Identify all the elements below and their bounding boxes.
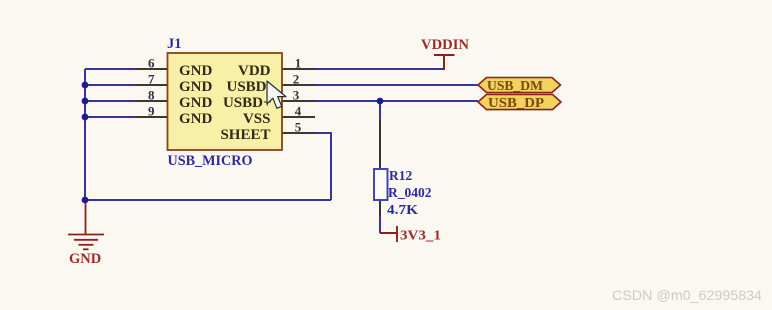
svg-text:VDDIN: VDDIN <box>421 37 469 53</box>
svg-text:6: 6 <box>148 56 155 71</box>
svg-text:3V3_1: 3V3_1 <box>400 229 441 244</box>
svg-text:9: 9 <box>148 104 155 119</box>
power port VDDIN <box>434 54 455 56</box>
resistor R12 bottom pin <box>379 200 381 216</box>
wire: pin1 to VDDIN horizontal <box>315 68 444 70</box>
svg-text:VSS: VSS <box>243 111 271 127</box>
svg-text:USBD-: USBD- <box>226 79 271 95</box>
wire: pin7 row horizontal <box>85 84 135 86</box>
svg-text:R_0402: R_0402 <box>388 185 432 200</box>
svg-text:GND: GND <box>179 95 213 111</box>
mouse cursor <box>267 81 286 108</box>
wire: pin5 horizontal <box>315 132 332 134</box>
pin 1 stub <box>282 68 315 70</box>
power port 3V3_1 <box>380 226 397 242</box>
ground symbol <box>68 203 104 249</box>
wire: VDDIN vertical stem <box>443 55 445 70</box>
wire: pin2 to USB_DM <box>315 84 478 86</box>
wire: pin3 to USB_DP <box>315 100 478 102</box>
wire: pin9 row horizontal <box>85 116 135 118</box>
wire: pin6 row horizontal <box>85 68 135 70</box>
port USB_DM <box>478 78 561 93</box>
connector J1 body <box>168 53 283 150</box>
pin 8 stub <box>135 100 168 102</box>
resistor R12 body <box>374 169 388 200</box>
junction at GND corner <box>82 197 89 204</box>
svg-text:VDD: VDD <box>238 63 271 79</box>
pin 4 stub <box>282 116 315 118</box>
junction on pin3 row at resistor <box>377 98 384 105</box>
resistor R12 top pin <box>379 120 381 169</box>
svg-text:7: 7 <box>148 72 155 87</box>
svg-text:CSDN @m0_62995834: CSDN @m0_62995834 <box>612 288 763 303</box>
pin 2 stub <box>282 84 315 86</box>
svg-text:R12: R12 <box>389 168 412 183</box>
junction on pin7 row <box>82 82 89 89</box>
svg-text:1: 1 <box>295 56 302 71</box>
junction on pin8 row <box>82 98 89 105</box>
pin 3 stub <box>282 100 315 102</box>
svg-text:4: 4 <box>295 104 302 119</box>
svg-text:GND: GND <box>179 63 213 79</box>
svg-text:GND: GND <box>69 251 101 267</box>
port USB_DP <box>478 94 561 109</box>
svg-text:4.7K: 4.7K <box>387 202 419 217</box>
svg-text:USBD+: USBD+ <box>223 95 272 111</box>
svg-text:SHEET: SHEET <box>220 127 270 143</box>
svg-text:USB_DP: USB_DP <box>488 95 544 110</box>
svg-text:GND: GND <box>179 111 213 127</box>
wire: left GND bus vertical <box>84 69 86 200</box>
pin 9 stub <box>135 116 168 118</box>
wire: bottom horizontal to GND <box>85 199 331 201</box>
pin 7 stub <box>135 84 168 86</box>
svg-text:8: 8 <box>148 88 155 103</box>
wire: junction down to resistor <box>379 101 381 120</box>
wire: resistor to 3V3_1 <box>379 216 381 233</box>
svg-text:3: 3 <box>293 88 300 103</box>
junction on pin9 row <box>82 114 89 121</box>
svg-text:5: 5 <box>295 120 302 135</box>
svg-text:J1: J1 <box>167 36 182 52</box>
svg-text:GND: GND <box>179 79 213 95</box>
svg-text:USB_DM: USB_DM <box>487 78 543 93</box>
pin 5 stub <box>282 132 315 134</box>
svg-text:2: 2 <box>293 72 300 87</box>
wire: pin5 loop vertical <box>330 133 332 200</box>
wire: pin8 row horizontal <box>85 100 135 102</box>
svg-text:USB_MICRO: USB_MICRO <box>168 153 253 169</box>
pin 6 stub <box>135 68 168 70</box>
